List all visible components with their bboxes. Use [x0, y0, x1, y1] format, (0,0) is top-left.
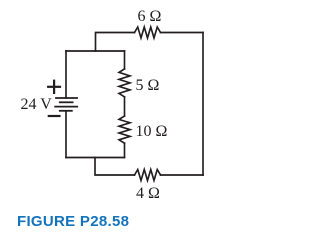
wire: middle branch between resistors	[124, 97, 126, 116]
wire: inner bottom rail	[66, 157, 125, 159]
wire: right rail	[202, 33, 204, 176]
resistor R 10ohm	[119, 116, 130, 143]
resistor R 4ohm	[135, 170, 161, 181]
wire: outer top rail left segment	[96, 33, 135, 52]
battery plus sign	[48, 81, 60, 93]
wire: outer top rail right segment	[161, 32, 204, 34]
caption FIGURE P28.58	[17, 213, 129, 230]
resistor R 6ohm	[135, 27, 161, 38]
resistor R 5ohm	[119, 69, 130, 97]
wire: middle branch below 10ohm	[124, 143, 126, 157]
battery 24V plates	[55, 98, 77, 111]
wire: drop from inner bottom rail	[95, 158, 135, 176]
svg-text:24 V: 24 V	[21, 96, 53, 113]
wire: battery branch bottom	[65, 111, 67, 158]
wire: inner top rail	[66, 50, 125, 52]
svg-text:10 Ω: 10 Ω	[136, 123, 168, 140]
svg-text:4 Ω: 4 Ω	[136, 185, 160, 202]
wire: outer bottom rail right segment	[161, 174, 204, 176]
battery minus sign	[49, 115, 60, 117]
wire: battery branch top	[65, 51, 67, 98]
svg-text:6 Ω: 6 Ω	[138, 8, 162, 25]
svg-text:5 Ω: 5 Ω	[136, 77, 160, 94]
wire: middle branch above 5ohm	[124, 51, 126, 69]
